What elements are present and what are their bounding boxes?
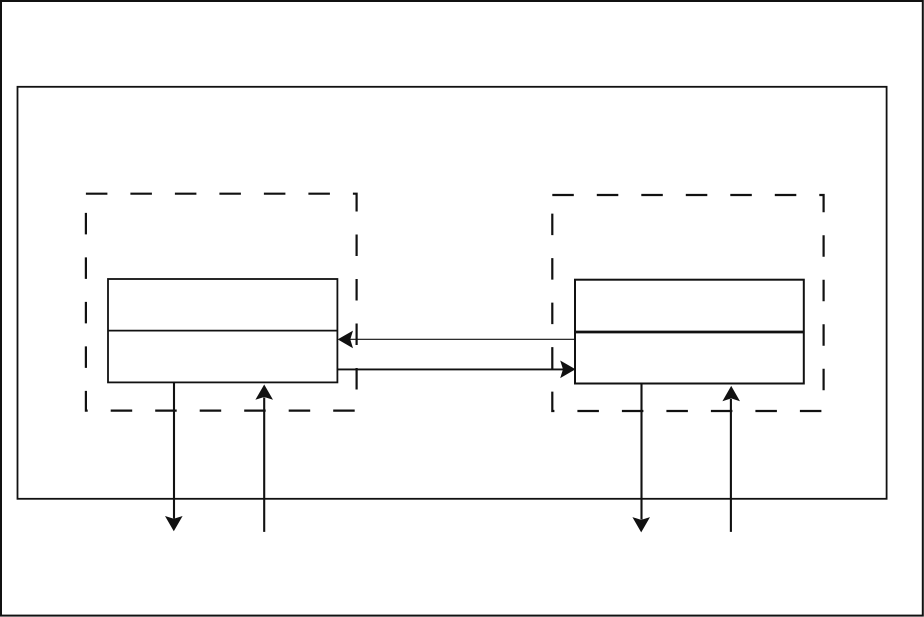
arrowhead right-pointing: [560, 361, 575, 379]
left dashed enclosure: [86, 194, 357, 411]
left down wire: [173, 382, 175, 518]
right dashed enclosure: [552, 195, 823, 411]
right down wire: [640, 384, 642, 520]
arrowhead down-pointing right: [632, 517, 650, 532]
right up wire: [730, 399, 732, 532]
right block: [575, 280, 804, 384]
inner boundary rectangle: [18, 87, 887, 499]
wire right-to-left (thin): [349, 338, 575, 340]
right block divider (bold): [575, 331, 804, 334]
right up arrowhead: [722, 386, 740, 401]
left block: [108, 279, 337, 382]
arrowhead left-pointing: [338, 331, 353, 349]
wire left-to-right (thick): [337, 368, 563, 370]
arrowhead down-pointing left: [165, 516, 183, 531]
left block divider: [108, 330, 337, 332]
left up wire: [263, 398, 265, 532]
left up arrowhead: [255, 385, 273, 400]
